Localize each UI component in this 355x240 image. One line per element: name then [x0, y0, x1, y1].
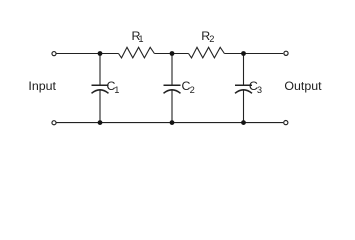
- svg-text:2: 2: [209, 34, 214, 44]
- svg-text:1: 1: [114, 85, 119, 95]
- svg-text:Input: Input: [28, 79, 56, 93]
- svg-text:Output: Output: [284, 79, 322, 93]
- svg-text:2: 2: [190, 85, 195, 95]
- svg-text:3: 3: [257, 85, 262, 95]
- svg-text:1: 1: [138, 34, 143, 44]
